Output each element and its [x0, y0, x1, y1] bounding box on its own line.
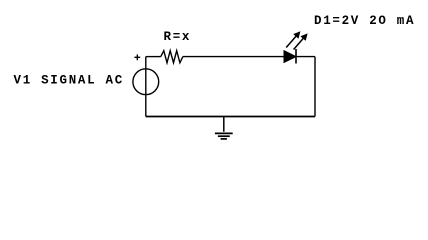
ground bar 2 — [218, 135, 230, 137]
svg-text:R=x: R=x — [164, 30, 192, 44]
LED D1 cathode bar — [295, 49, 297, 64]
wire LED to right corner — [296, 56, 315, 58]
wire resistor to LED — [183, 56, 284, 58]
LED light arrow 2 — [294, 34, 307, 49]
ground bar 1 — [215, 132, 233, 134]
wire right vertical — [314, 57, 316, 117]
wire top from source to resistor — [146, 56, 161, 58]
resistor R=x — [161, 51, 183, 63]
ground bar 3 — [221, 138, 227, 140]
wire bottom — [146, 116, 315, 118]
LED light arrow 1 — [286, 32, 299, 47]
plus polarity mark — [134, 54, 140, 60]
ground stub — [223, 117, 225, 132]
AC source V1 — [133, 69, 159, 95]
svg-text:D1=2V 2O mA: D1=2V 2O mA — [314, 14, 415, 28]
wire left vertical (through source) — [145, 57, 147, 117]
svg-text:V1 SIGNAL AC: V1 SIGNAL AC — [14, 74, 124, 88]
LED D1 anode triangle — [284, 51, 296, 63]
